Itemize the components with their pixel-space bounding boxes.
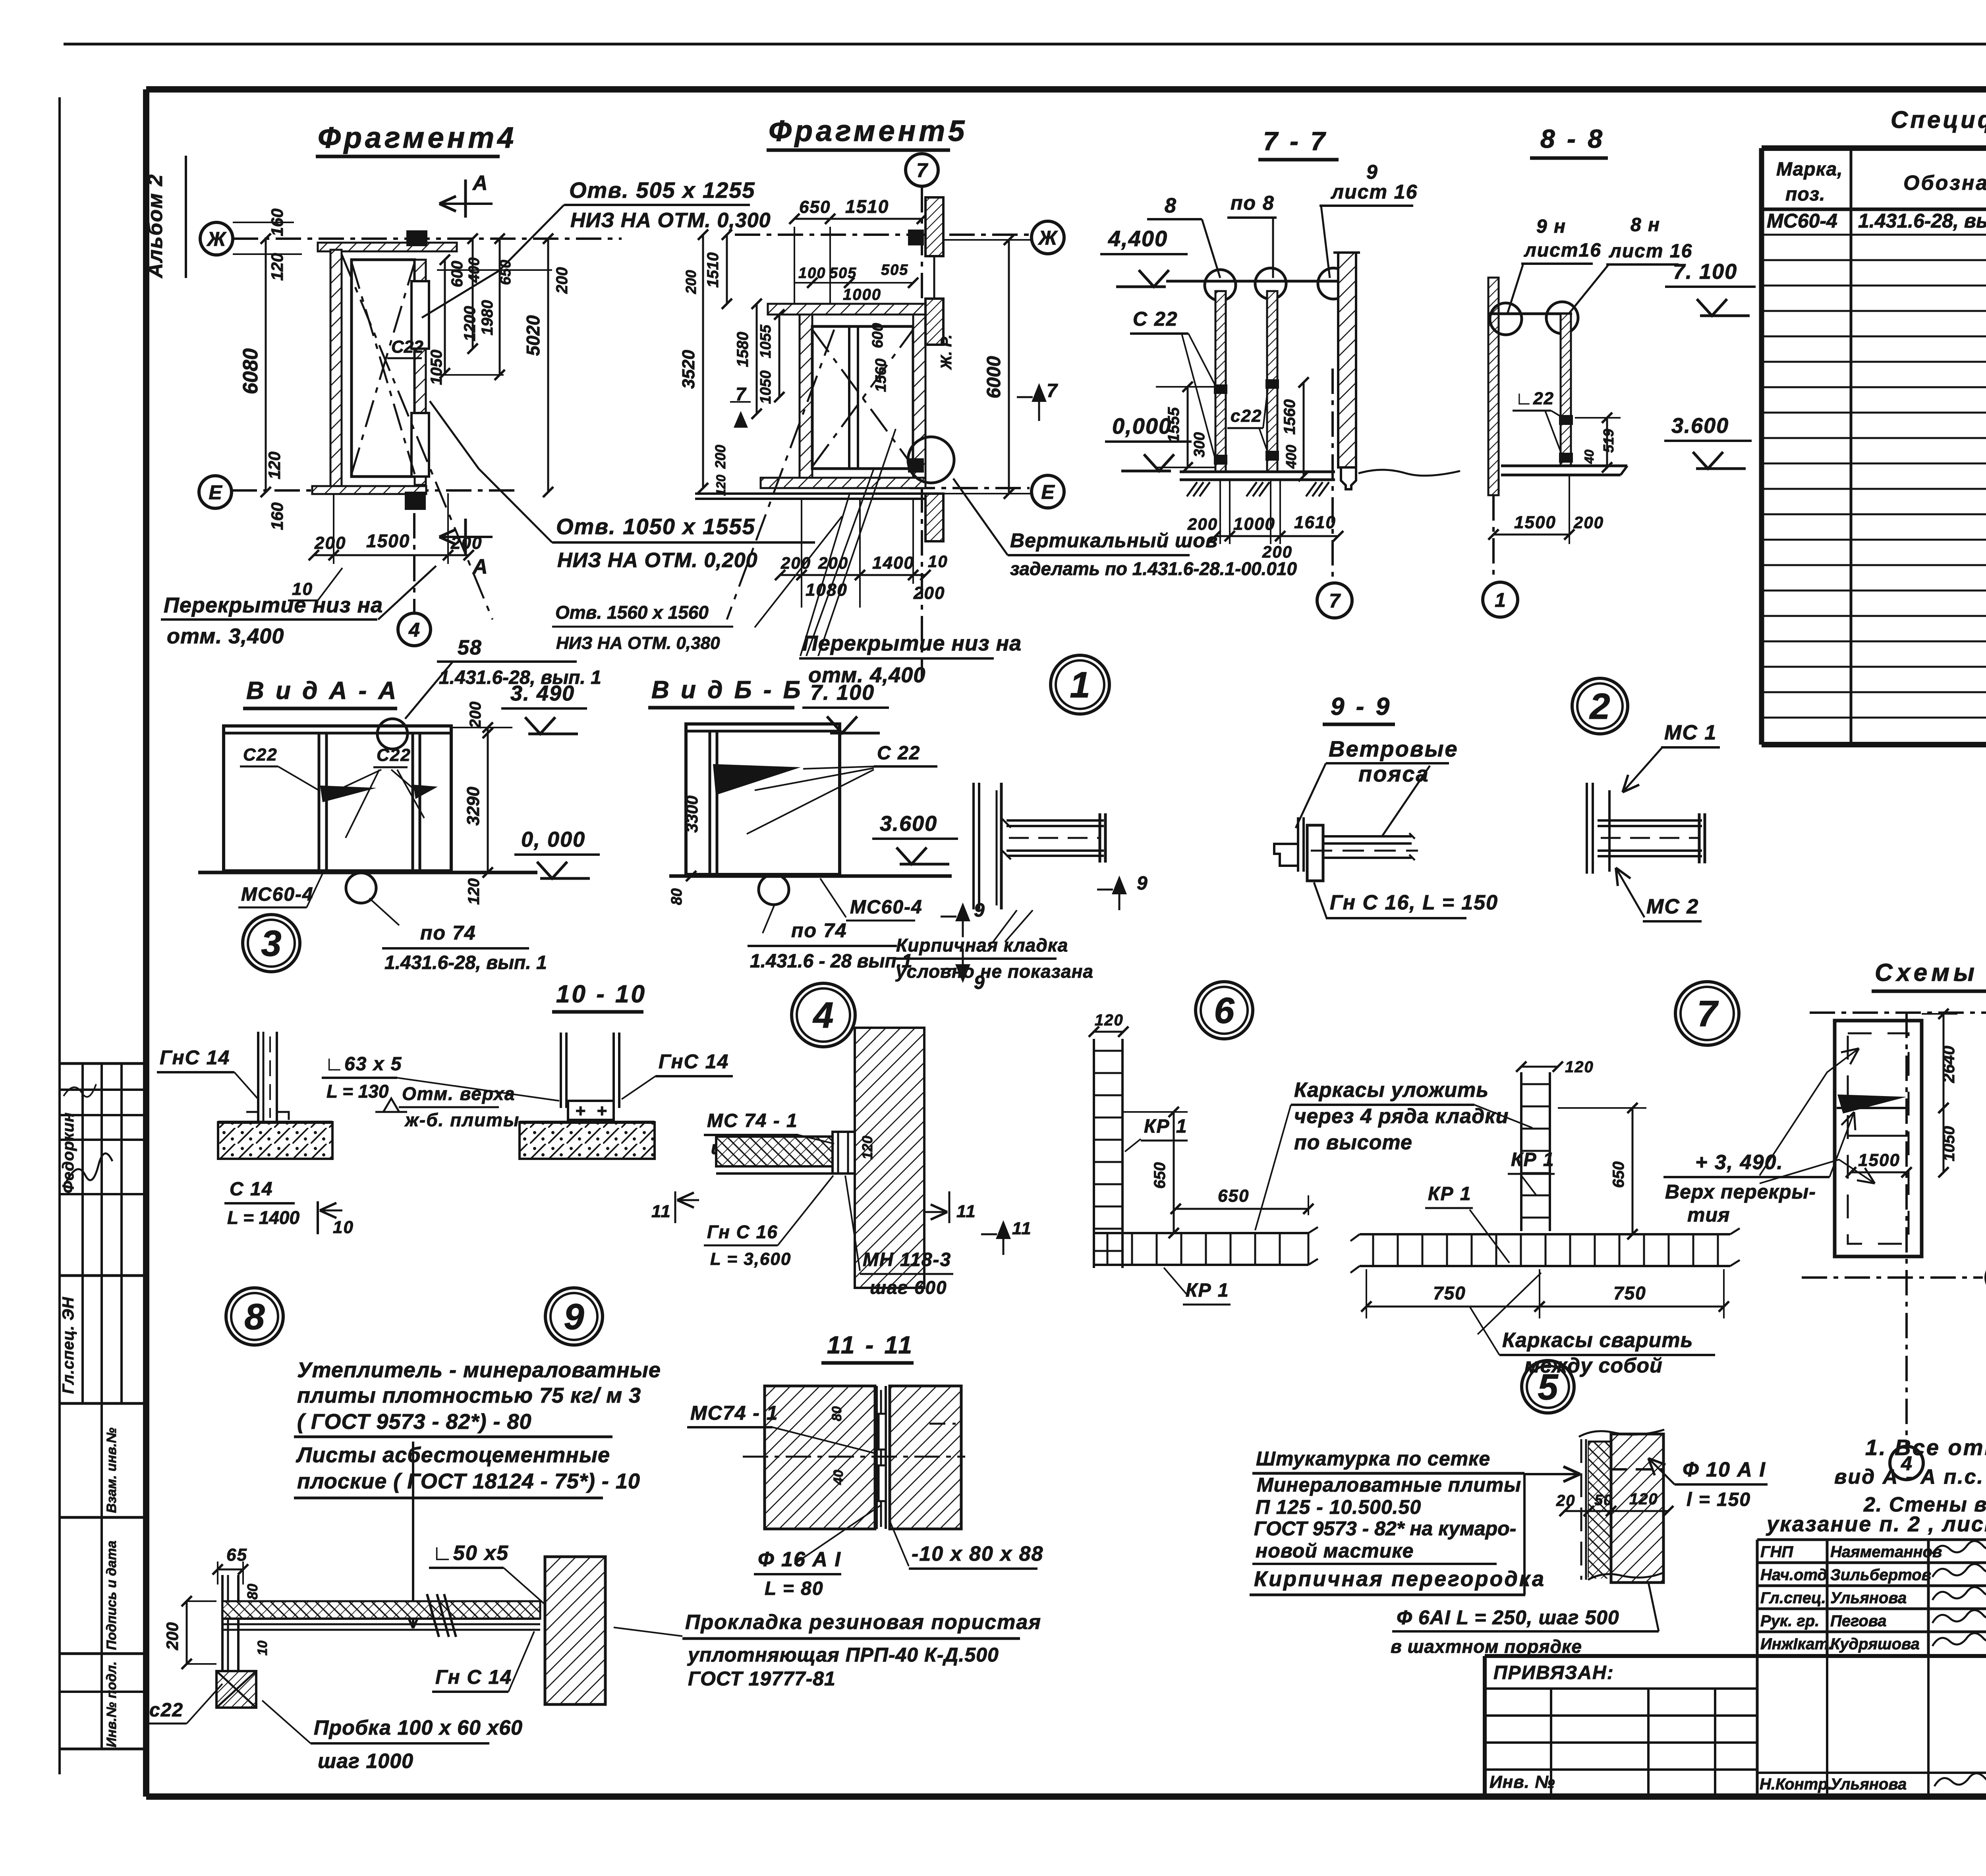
svg-text:200: 200 [683, 270, 699, 294]
svg-text:новой мастике: новой мастике [1256, 1540, 1414, 1562]
svg-text:МС 1: МС 1 [1664, 721, 1717, 744]
sheet main frame [146, 86, 1986, 93]
svg-text:1050: 1050 [428, 350, 445, 385]
svg-text:С22: С22 [243, 745, 278, 764]
svg-text:2640: 2640 [1939, 1046, 1958, 1083]
svg-text:L = 130: L = 130 [326, 1081, 389, 1102]
svg-text:Альбом 2: Альбом 2 [144, 174, 167, 279]
svg-text:l = 150: l = 150 [1687, 1489, 1751, 1510]
svg-text:6: 6 [1214, 990, 1234, 1031]
svg-text:А: А [472, 555, 489, 578]
svg-text:9 - 9: 9 - 9 [1331, 693, 1392, 720]
specification table [1759, 148, 1764, 745]
svg-text:1510: 1510 [845, 196, 889, 217]
svg-text:120: 120 [1095, 1011, 1124, 1029]
svg-text:А: А [472, 172, 489, 195]
svg-text:НИЗ НА ОТМ. 0,300: НИЗ НА ОТМ. 0,300 [570, 209, 771, 232]
svg-text:МС 2: МС 2 [1646, 895, 1699, 918]
svg-text:уплотняющая ПРП-40 К-Д.500: уплотняющая ПРП-40 К-Д.500 [687, 1644, 999, 1666]
svg-text:Пробка 100 х 60 х60: Пробка 100 х 60 х60 [314, 1716, 523, 1739]
svg-text:7: 7 [1329, 590, 1341, 612]
svg-text:200: 200 [1187, 515, 1218, 533]
svg-text:ПРИВЯЗАН:: ПРИВЯЗАН: [1493, 1662, 1614, 1683]
svg-text:Нач.отд: Нач.отд [1760, 1566, 1827, 1584]
svg-text:Ульянова: Ульянова [1830, 1589, 1907, 1607]
svg-text:Гл.спец.: Гл.спец. [1760, 1589, 1826, 1607]
svg-text:Наяметаннов: Наяметаннов [1830, 1543, 1942, 1561]
svg-text:7: 7 [916, 159, 928, 181]
svg-text:по 8: по 8 [1231, 192, 1275, 214]
svg-text:9: 9 [1137, 873, 1148, 894]
svg-text:1.431.6-28, вып. 2: 1.431.6-28, вып. 2 [1858, 210, 1986, 232]
svg-text:Ж: Ж [206, 228, 227, 250]
svg-text:7: 7 [736, 384, 747, 404]
svg-text:9: 9 [1366, 161, 1378, 183]
svg-text:3: 3 [261, 923, 281, 964]
svg-text:С22: С22 [391, 337, 423, 357]
svg-text:НИЗ НА ОТМ. 0,380: НИЗ НА ОТМ. 0,380 [556, 633, 720, 653]
svg-text:200: 200 [1262, 542, 1292, 561]
svg-text:200: 200 [450, 533, 482, 553]
svg-text:+ 3, 490.: + 3, 490. [1695, 1151, 1783, 1174]
svg-text:С22: С22 [377, 745, 411, 765]
svg-text:L = 1400: L = 1400 [227, 1207, 299, 1228]
svg-text:Спецификация элементов вентш: Спецификация элементов вентшахт [1891, 106, 1986, 133]
svg-text:Е: Е [1041, 481, 1055, 503]
svg-text:Перекрытие низ на: Перекрытие низ на [164, 593, 383, 617]
svg-text:80: 80 [829, 1406, 844, 1421]
detail circle 6 [1196, 982, 1253, 1039]
svg-text:58: 58 [458, 636, 482, 659]
svg-text:519: 519 [1600, 429, 1617, 453]
svg-text:указание п. 2 , лист 14.: указание п. 2 , лист 14. [1766, 1512, 1986, 1536]
svg-text:Фрагмент4: Фрагмент4 [318, 121, 517, 154]
svg-text:Зильбертов: Зильбертов [1830, 1566, 1931, 1584]
svg-text:Каркасы уложить: Каркасы уложить [1294, 1079, 1489, 1102]
svg-text:∟50 х5: ∟50 х5 [432, 1542, 509, 1565]
svg-text:ГНП: ГНП [1760, 1543, 1793, 1561]
svg-text:Отв. 505 х 1255: Отв. 505 х 1255 [569, 178, 755, 203]
svg-text:ГнС 14: ГнС 14 [160, 1046, 230, 1069]
svg-text:П 125 - 10.500.50: П 125 - 10.500.50 [1256, 1496, 1421, 1518]
svg-text:650: 650 [1610, 1162, 1627, 1188]
svg-text:Кирпичная кладка: Кирпичная кладка [896, 935, 1068, 955]
svg-text:+: + [575, 1101, 586, 1121]
svg-text:Федоркин: Федоркин [60, 1112, 77, 1193]
svg-text:200: 200 [314, 533, 346, 553]
svg-text:В и д Б - Б: В и д Б - Б [651, 676, 803, 704]
svg-text:1055: 1055 [757, 324, 774, 358]
svg-text:Рук. гр.: Рук. гр. [1760, 1612, 1819, 1630]
svg-text:Верх перекры-: Верх перекры- [1665, 1181, 1816, 1203]
svg-text:4: 4 [408, 619, 420, 641]
svg-text:1200: 1200 [461, 306, 479, 342]
svg-text:МС60-4: МС60-4 [1767, 210, 1837, 232]
detail node 2 [1572, 678, 1628, 734]
svg-text:лист 16: лист 16 [1331, 181, 1418, 203]
svg-text:Кирпичная перегородка: Кирпичная перегородка [1254, 1567, 1546, 1591]
svg-text:1.431.6-28, вып. 1: 1.431.6-28, вып. 1 [384, 952, 547, 973]
svg-text:11: 11 [651, 1202, 671, 1221]
svg-text:200: 200 [818, 554, 848, 572]
svg-text:1.431.6 - 28 вып.1: 1.431.6 - 28 вып.1 [750, 951, 912, 972]
detail circle 4 mid [792, 983, 855, 1047]
svg-text:Гн С 16: Гн С 16 [707, 1222, 778, 1242]
svg-text:1400: 1400 [872, 553, 914, 573]
svg-text:3. 490: 3. 490 [510, 681, 575, 705]
svg-text:4: 4 [812, 995, 833, 1036]
detail node 1 [1051, 655, 1109, 714]
svg-text:Гл.спец. ЭН: Гл.спец. ЭН [60, 1297, 77, 1394]
svg-text:в шахтном порядке: в шахтном порядке [1391, 1636, 1582, 1657]
svg-text:Каркасы сварить: Каркасы сварить [1502, 1329, 1693, 1352]
svg-text:10: 10 [928, 552, 948, 571]
svg-text:НИЗ НА ОТМ. 0,200: НИЗ НА ОТМ. 0,200 [557, 549, 758, 572]
svg-text:МН 118-3: МН 118-3 [863, 1249, 951, 1270]
svg-text:10: 10 [255, 1641, 270, 1656]
svg-text:поз.: поз. [1785, 184, 1825, 205]
svg-text:МС 74 - 1: МС 74 - 1 [707, 1110, 798, 1131]
svg-text:0, 000: 0, 000 [521, 828, 585, 851]
svg-text:Минераловатные плиты: Минераловатные плиты [1257, 1474, 1521, 1496]
svg-text:заделать по 1.431.6-28.1-00.0: заделать по 1.431.6-28.1-00.010 [1010, 558, 1297, 579]
svg-text:200: 200 [467, 702, 484, 729]
svg-text:200: 200 [780, 554, 811, 572]
svg-text:1050: 1050 [1940, 1126, 1958, 1162]
svg-text:120: 120 [714, 475, 728, 496]
svg-text:8: 8 [244, 1297, 265, 1337]
svg-text:тия: тия [1687, 1204, 1730, 1226]
svg-text:200: 200 [1573, 513, 1604, 532]
svg-text:по 74: по 74 [420, 922, 476, 944]
svg-text:Отм. верха: Отм. верха [402, 1083, 515, 1104]
svg-text:с22: с22 [149, 1700, 184, 1721]
svg-text:С 22: С 22 [877, 743, 920, 764]
svg-text:Ж. Р.: Ж. Р. [938, 334, 955, 370]
svg-text:3.600: 3.600 [1671, 414, 1729, 438]
title block [1757, 1538, 1986, 1541]
svg-text:КР 1: КР 1 [1144, 1116, 1188, 1137]
svg-text:Ж: Ж [1037, 227, 1058, 249]
svg-text:по высоте: по высоте [1294, 1131, 1412, 1154]
svg-text:1555: 1555 [1165, 407, 1182, 443]
svg-text:шаг 600: шаг 600 [870, 1277, 947, 1298]
svg-text:МС60-4: МС60-4 [850, 897, 923, 918]
svg-text:3.600: 3.600 [880, 812, 937, 836]
svg-text:∟63 х 5: ∟63 х 5 [325, 1054, 402, 1075]
svg-text:условно не показана: условно не показана [895, 961, 1093, 982]
svg-text:1000: 1000 [1233, 514, 1275, 534]
svg-text:650: 650 [799, 197, 831, 217]
svg-text:600: 600 [869, 323, 886, 348]
svg-text:С 22: С 22 [1133, 308, 1178, 330]
svg-text:плиты плотностью 75 кг/ м 3: плиты плотностью 75 кг/ м 3 [297, 1384, 641, 1407]
svg-text:ИнжIкат.: ИнжIкат. [1760, 1635, 1833, 1653]
svg-text:10: 10 [292, 579, 313, 599]
svg-text:Гн С 14: Гн С 14 [435, 1666, 512, 1688]
svg-text:20: 20 [1556, 1492, 1576, 1509]
svg-text:11: 11 [1012, 1219, 1032, 1238]
svg-text:600: 600 [448, 261, 466, 288]
svg-text:Утеплитель - минераловатные: Утеплитель - минераловатные [297, 1358, 661, 1382]
svg-text:Подпись и дата: Подпись и дата [104, 1540, 119, 1650]
svg-text:8: 8 [1165, 194, 1177, 217]
svg-text:Гн С 16, L = 150: Гн С 16, L = 150 [1330, 891, 1498, 914]
svg-text:1580: 1580 [734, 332, 752, 367]
svg-text:1560: 1560 [1281, 400, 1298, 435]
svg-text:Инв.№ подл.: Инв.№ подл. [104, 1661, 119, 1747]
svg-text:7. 100: 7. 100 [1673, 260, 1737, 284]
svg-text:L = 80: L = 80 [765, 1578, 824, 1599]
svg-text:40: 40 [1582, 450, 1596, 464]
svg-text:3290: 3290 [464, 787, 483, 826]
svg-text:КР 1: КР 1 [1511, 1149, 1555, 1170]
svg-text:7: 7 [1047, 380, 1058, 401]
svg-text:по 74: по 74 [791, 919, 847, 942]
svg-text:1510: 1510 [704, 253, 722, 288]
svg-text:С 14: С 14 [230, 1179, 273, 1200]
svg-text:10 - 10: 10 - 10 [556, 980, 647, 1008]
svg-text:80: 80 [244, 1584, 261, 1600]
svg-text:+: + [597, 1101, 608, 1121]
svg-text:1500: 1500 [1514, 513, 1556, 532]
svg-text:через 4 ряда кладки: через 4 ряда кладки [1294, 1105, 1509, 1128]
svg-text:Вертикальный шов: Вертикальный шов [1010, 529, 1218, 552]
svg-text:65: 65 [226, 1545, 247, 1565]
svg-text:1: 1 [1070, 665, 1090, 705]
svg-text:8 - 8: 8 - 8 [1540, 124, 1605, 153]
svg-text:750: 750 [1433, 1283, 1466, 1303]
svg-text:КР 1: КР 1 [1186, 1280, 1229, 1301]
svg-text:Перекрытие низ на: Перекрытие низ на [802, 631, 1022, 655]
svg-text:Взам. инв.№: Взам. инв.№ [104, 1428, 119, 1513]
svg-text:0,000: 0,000 [1112, 413, 1172, 438]
svg-text:КР 1: КР 1 [1428, 1183, 1472, 1204]
svg-text:1. Все отверстия вентшахт о: 1. Все отверстия вентшахт обрамить С22 с… [1865, 1435, 1986, 1460]
svg-text:8 н: 8 н [1631, 214, 1660, 235]
svg-text:11: 11 [956, 1202, 976, 1221]
svg-text:1050: 1050 [757, 371, 774, 404]
svg-text:Марка,: Марка, [1776, 159, 1843, 180]
svg-text:Фрагмент5: Фрагмент5 [769, 114, 968, 147]
svg-text:Отв. 1050 х 1555: Отв. 1050 х 1555 [556, 514, 755, 539]
svg-text:Н.Контр.: Н.Контр. [1760, 1776, 1832, 1793]
svg-text:505: 505 [881, 262, 908, 278]
svg-text:4,400: 4,400 [1108, 226, 1168, 251]
svg-text:Е: Е [209, 481, 222, 504]
svg-text:1610: 1610 [1294, 513, 1336, 532]
svg-text:2: 2 [1589, 686, 1610, 727]
svg-text:шаг 1000: шаг 1000 [318, 1750, 413, 1773]
svg-text:ГнС 14: ГнС 14 [659, 1050, 729, 1073]
svg-text:1500: 1500 [1858, 1150, 1900, 1170]
svg-text:300: 300 [1191, 432, 1208, 457]
svg-text:40: 40 [831, 1470, 846, 1485]
svg-text:3300: 3300 [682, 795, 701, 832]
svg-text:750: 750 [1613, 1283, 1646, 1303]
svg-text:6080: 6080 [239, 348, 262, 394]
svg-text:5020: 5020 [523, 315, 543, 356]
svg-text:отм. 3,400: отм. 3,400 [167, 624, 284, 648]
detail circle 7 mid [1675, 982, 1739, 1045]
svg-text:Ф 10 А I: Ф 10 А I [1683, 1458, 1766, 1481]
sheet frame outer thin lines [64, 43, 1986, 46]
svg-text:9 н: 9 н [1536, 216, 1566, 237]
detail circle 5 [1522, 1361, 1574, 1413]
svg-text:лист16: лист16 [1524, 240, 1602, 261]
detail circle 9 [545, 1288, 603, 1345]
svg-text:160: 160 [268, 502, 286, 530]
svg-text:200: 200 [553, 267, 571, 294]
svg-text:между собой: между собой [1524, 1354, 1663, 1377]
svg-text:10: 10 [333, 1218, 354, 1237]
svg-text:лист 16: лист 16 [1609, 241, 1692, 262]
svg-text:120: 120 [1629, 1490, 1658, 1508]
svg-text:ГОСТ 19777-81: ГОСТ 19777-81 [688, 1668, 836, 1690]
svg-text:7 - 7: 7 - 7 [1263, 126, 1327, 156]
svg-text:ж-б. плиты: ж-б. плиты [404, 1110, 520, 1130]
svg-text:120: 120 [465, 878, 483, 905]
details 6 and 7 rebar cages KP1 [1094, 1031, 1123, 1033]
svg-text:Кудряшова: Кудряшова [1830, 1635, 1920, 1653]
svg-text:200: 200 [163, 1622, 182, 1650]
svg-text:9: 9 [564, 1297, 584, 1337]
svg-text:1000: 1000 [843, 286, 881, 303]
svg-text:120: 120 [265, 452, 284, 479]
svg-text:вид А - А п.с.: вид А - А п.с. [1834, 1465, 1984, 1488]
svg-text:650: 650 [1218, 1186, 1249, 1206]
svg-text:∟22: ∟22 [1515, 389, 1554, 408]
detail circle 8 [226, 1288, 283, 1345]
svg-text:80: 80 [668, 888, 685, 905]
svg-text:11 - 11: 11 - 11 [827, 1332, 914, 1359]
svg-text:Ф 6АI L = 250, шаг 500: Ф 6АI L = 250, шаг 500 [1397, 1606, 1619, 1629]
svg-text:Штукатурка по сетке: Штукатурка по сетке [1256, 1448, 1490, 1470]
svg-text:МС60-4: МС60-4 [241, 884, 314, 905]
svg-text:Пегова: Пегова [1830, 1612, 1887, 1630]
svg-text:Листы асбестоцементные: Листы асбестоцементные [296, 1443, 610, 1467]
svg-text:-10 х 80 х 88: -10 х 80 х 88 [912, 1542, 1043, 1565]
svg-text:Инв. №: Инв. № [1489, 1772, 1555, 1792]
svg-text:400: 400 [1283, 445, 1299, 469]
svg-text:650: 650 [1151, 1162, 1169, 1189]
svg-text:Ветровые: Ветровые [1329, 736, 1459, 761]
svg-text:Отв. 1560 х 1560: Отв. 1560 х 1560 [555, 602, 709, 623]
svg-text:с22: с22 [1231, 406, 1262, 426]
svg-text:1560: 1560 [873, 359, 889, 392]
svg-text:L = 3,600: L = 3,600 [710, 1249, 791, 1269]
left margin stamp [60, 1062, 145, 1065]
svg-text:ГОСТ 9573 - 82* на кумаро-: ГОСТ 9573 - 82* на кумаро- [1254, 1517, 1516, 1540]
svg-text:В и д А - А: В и д А - А [246, 677, 398, 704]
svg-text:1500: 1500 [366, 531, 410, 551]
svg-text:3520: 3520 [679, 350, 698, 389]
svg-text:МС74 - 1: МС74 - 1 [690, 1402, 779, 1424]
svg-text:6000: 6000 [983, 356, 1005, 398]
svg-text:50: 50 [1594, 1492, 1613, 1509]
svg-text:120: 120 [1565, 1058, 1594, 1076]
svg-text:Обозначение: Обозначение [1903, 172, 1986, 195]
svg-text:200: 200 [712, 445, 728, 469]
svg-text:плоские ( ГОСТ 18124 - 75*) -: плоские ( ГОСТ 18124 - 75*) - 10 [297, 1469, 640, 1493]
svg-text:Ульянова: Ульянова [1830, 1776, 1907, 1793]
svg-text:1: 1 [1495, 589, 1506, 611]
svg-text:Схемы перекрытий вентшахт: Схемы перекрытий вентшахт [1875, 959, 1986, 986]
svg-text:100: 100 [798, 265, 826, 282]
svg-text:200: 200 [913, 583, 945, 603]
svg-text:Прокладка резиновая пористая: Прокладка резиновая пористая [685, 1611, 1041, 1634]
svg-text:1980: 1980 [479, 300, 496, 336]
svg-text:( ГОСТ 9573 - 82*) - 80: ( ГОСТ 9573 - 82*) - 80 [297, 1410, 532, 1434]
svg-text:7: 7 [1697, 994, 1719, 1034]
svg-text:7. 100: 7. 100 [810, 681, 875, 704]
svg-text:120: 120 [859, 1136, 875, 1160]
svg-text:120: 120 [268, 253, 286, 281]
